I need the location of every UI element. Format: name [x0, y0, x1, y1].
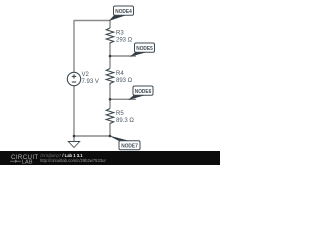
wire: left vertical upper (top corner to V2 top)	[73, 20, 75, 72]
ground	[68, 136, 79, 148]
svg-text:NODE4: NODE4	[115, 9, 132, 15]
wire: top horizontal from V2 to R3 branch	[74, 20, 110, 22]
node NODE5 flag	[130, 43, 155, 57]
svg-text:R4: R4	[116, 71, 124, 77]
junction: NODE6 tap	[109, 98, 112, 101]
resistor R4	[106, 69, 113, 86]
resistor R3	[106, 28, 113, 44]
resistor R5	[106, 109, 113, 125]
svg-text:R3: R3	[116, 31, 124, 37]
wire: left vertical lower (V2 bottom to bottom wire)	[73, 86, 75, 136]
junction: bottom-left ground node	[73, 135, 76, 138]
svg-text:R5: R5	[116, 111, 124, 117]
svg-text:NODE6: NODE6	[135, 89, 152, 95]
svg-text:893 Ω: 893 Ω	[116, 78, 133, 84]
wire: R3 to R4 segment	[109, 44, 111, 69]
svg-text:http://circuitlab.com/c/29b2w7: http://circuitlab.com/c/29b2w7533ur	[40, 158, 106, 163]
wire: right vertical top (NODE4 to R3)	[109, 20, 111, 28]
wire: bottom horizontal	[74, 135, 110, 137]
junction: NODE5 tap	[109, 55, 112, 58]
svg-text:7.93 V: 7.93 V	[82, 79, 99, 85]
junction: NODE7 tap	[109, 135, 112, 138]
svg-text:V2: V2	[82, 72, 90, 78]
node NODE6 flag	[128, 86, 153, 100]
svg-text:LAB: LAB	[22, 159, 33, 165]
wire: R4 to R5 segment	[109, 85, 111, 109]
wire: R5 to bottom wire	[109, 124, 111, 136]
node NODE4 flag	[109, 6, 134, 21]
wire: NODE6 stub	[110, 98, 136, 100]
svg-text:293 Ω: 293 Ω	[116, 38, 133, 44]
footer bar	[0, 151, 220, 165]
svg-text:NODE5: NODE5	[136, 46, 153, 52]
node NODE7 flag	[108, 135, 140, 149]
svg-text:89.3 Ω: 89.3 Ω	[116, 118, 134, 124]
voltage source V2	[67, 72, 80, 85]
svg-text:NODE7: NODE7	[121, 144, 138, 150]
footer logo wire glyph	[10, 160, 21, 163]
wire: NODE5 stub	[110, 55, 136, 57]
